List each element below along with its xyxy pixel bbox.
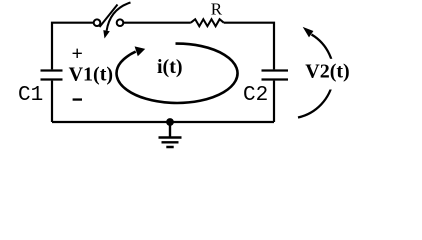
wire bottom segment [52,121,274,123]
svg-text:V2(t): V2(t) [305,61,349,83]
current loop arrow i(t) [117,44,238,103]
ground junction node [166,118,174,126]
resistor R [191,19,224,26]
minus sign [73,98,82,100]
switch SW left contact terminal [94,19,101,26]
capacitor C2 plates [262,71,289,80]
switch closing arrow [107,3,131,31]
wire left-lower segment [51,81,53,122]
svg-text:+: + [72,43,83,65]
svg-text:V1(t): V1(t) [69,64,113,86]
wire top-left segment [52,23,94,70]
svg-text:C1: C1 [18,84,43,107]
node label V2(t) [296,59,353,90]
capacitor C1 plates [41,71,63,80]
switch SW right contact terminal [117,19,124,26]
voltage arrow V2 [298,35,334,118]
svg-text:C2: C2 [243,84,268,107]
svg-text:i(t): i(t) [157,56,183,78]
wire top-right segment [224,23,274,70]
ground [159,122,182,147]
wire right-lower segment [273,81,275,122]
switch blade [100,5,118,28]
svg-text:R: R [211,0,223,19]
wire top-middle segment [123,22,191,24]
